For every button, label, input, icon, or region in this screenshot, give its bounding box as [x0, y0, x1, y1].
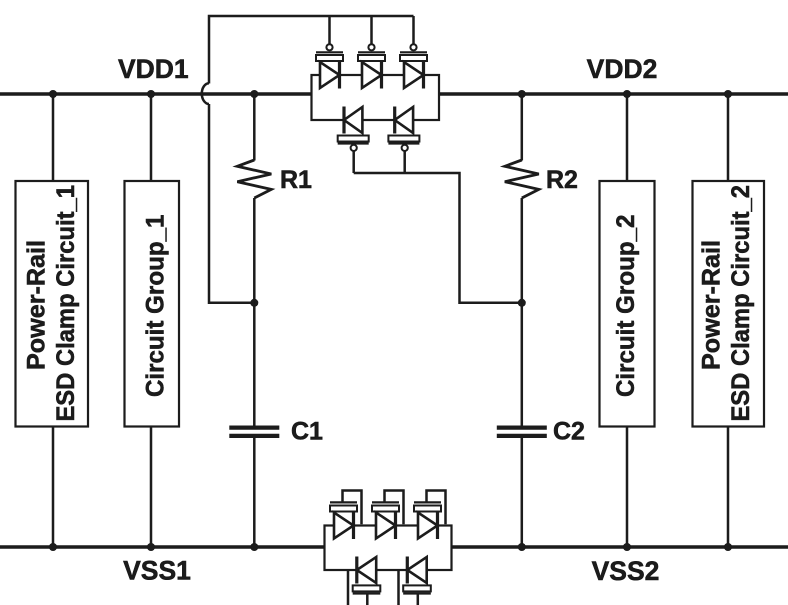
- wire Circuit Group_2 to VDD2: [626, 94, 629, 181]
- svg-text:VDD1: VDD1: [118, 54, 189, 84]
- wire VDD1 to R1: [253, 94, 256, 161]
- resistor R2: [505, 160, 539, 198]
- block Circuit Group_1 box: [125, 181, 180, 427]
- junction dot node A (R1-C1 midpoint): [250, 299, 258, 307]
- junction dot node B (R2-C2 midpoint): [518, 299, 526, 307]
- junction dot C2 / VSS2: [518, 543, 526, 551]
- junction dot Circuit Group_1 / VSS1: [147, 543, 155, 551]
- diode D4 (top block lower row, anode VDD2 side) with well tie: [338, 107, 369, 174]
- block Power-Rail ESD Clamp Circuit_2 box: [693, 181, 765, 427]
- svg-text:Power-Rail: Power-Rail: [23, 240, 51, 370]
- diode D7 (bottom block upper row, anode VSS1 side) with well tie: [372, 491, 404, 540]
- junction dot R2 / VDD2: [518, 90, 526, 98]
- wire VSS2 rail segment (right): [452, 545, 788, 549]
- svg-text:Circuit Group_1: Circuit Group_1: [142, 214, 170, 397]
- diode D3 (top block upper row, anode VDD1 side) with well tie: [400, 16, 427, 89]
- svg-text:Power-Rail: Power-Rail: [698, 240, 726, 370]
- diode D5 (top block lower row, anode VDD2 side) with well tie: [388, 107, 419, 174]
- wire C2 to VSS2: [521, 438, 524, 547]
- svg-text:C2: C2: [553, 418, 585, 446]
- wire R2 to C2: [521, 198, 524, 426]
- wire hop over VDD1 rail: [202, 83, 209, 104]
- svg-text:VDD2: VDD2: [587, 54, 658, 84]
- svg-text:R1: R1: [280, 166, 312, 194]
- wire hop to node A: [209, 104, 254, 303]
- wire Circuit Group_1 to VSS1: [150, 427, 153, 548]
- wire top bus (well ties of upper diodes): [209, 16, 414, 84]
- wire Circuit Group_2 to VSS2: [626, 427, 629, 548]
- block bottom bidirectional diode string boundary: [325, 526, 452, 571]
- svg-text:R2: R2: [546, 166, 578, 194]
- diode D10 (bottom block lower row, anode VSS2 side) with well tie: [403, 557, 431, 605]
- diode D2 (top block upper row, anode VDD1 side) with well tie: [358, 16, 385, 89]
- wire VDD2 to R2: [521, 94, 524, 161]
- wire VSS1 rail segment (left): [0, 545, 325, 549]
- junction dot Circuit Group_2 / VDD2: [623, 90, 631, 98]
- capacitor C2: [497, 428, 547, 436]
- wire VDD2 rail segment (right): [439, 92, 788, 96]
- junction dot Circuit Group_2 / VSS2: [623, 543, 631, 551]
- svg-text:VSS2: VSS2: [592, 556, 660, 586]
- block Circuit Group_2 box: [600, 181, 655, 427]
- wire lower-diode well ties to node B: [354, 173, 522, 303]
- wire Circuit Group_1 to VDD1: [150, 94, 153, 181]
- junction dot R1 / VDD1: [250, 90, 258, 98]
- junction dot ESD clamp 1 / VSS1: [49, 543, 57, 551]
- wire bottom block anode stub (left, off-page): [347, 571, 350, 605]
- capacitor C1: [229, 428, 279, 436]
- svg-text:C1: C1: [291, 418, 323, 446]
- diode D1 (top block upper row, anode VDD1 side) with well tie: [316, 16, 343, 89]
- junction dot Circuit Group_1 / VDD1: [147, 90, 155, 98]
- block top bidirectional diode string boundary: [312, 75, 440, 120]
- wire VDD1 rail segment (left): [0, 92, 312, 96]
- wire ESD clamp 1 to VDD1: [52, 94, 55, 181]
- svg-text:ESD Clamp Circuit_1: ESD Clamp Circuit_1: [52, 185, 80, 422]
- svg-text:Circuit Group_2: Circuit Group_2: [612, 215, 640, 398]
- diode D9 (bottom block lower row, anode VSS2 side) with well tie: [353, 557, 381, 605]
- wire ESD clamp 2 to VSS2: [727, 427, 730, 548]
- junction dot C1 / VSS1: [250, 543, 258, 551]
- junction dot ESD clamp 1 / VDD1: [49, 90, 57, 98]
- svg-text:ESD Clamp Circuit_2: ESD Clamp Circuit_2: [727, 185, 755, 422]
- junction dot ESD clamp 2 / VSS2: [724, 543, 732, 551]
- wire C1 to VSS1: [253, 438, 256, 547]
- diode D8 (bottom block upper row, anode VSS1 side) with well tie: [414, 491, 446, 540]
- wire ESD clamp 2 to VDD2: [727, 94, 730, 181]
- diode D6 (bottom block upper row, anode VSS1 side) with well tie: [330, 491, 362, 540]
- block Power-Rail ESD Clamp Circuit_1 box: [16, 181, 89, 427]
- wire ESD clamp 1 to VSS1: [52, 427, 55, 548]
- wire R1 to C1: [253, 198, 256, 426]
- junction dot ESD clamp 2 / VDD2: [724, 90, 732, 98]
- wire bottom block anode stub (right, off-page): [397, 571, 400, 605]
- resistor R1: [237, 160, 271, 198]
- svg-text:VSS1: VSS1: [123, 556, 191, 586]
